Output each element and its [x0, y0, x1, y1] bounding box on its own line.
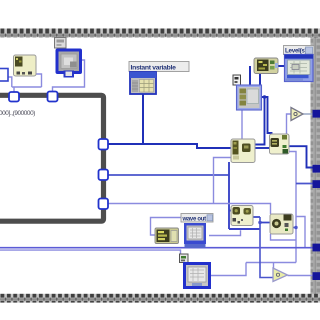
gray badge G1: [55, 38, 67, 49]
wire: O2 to label box: [151, 218, 182, 236]
dynamic data node C1: [254, 58, 278, 74]
variable node V1: [130, 72, 156, 94]
tunnel D on right border: [313, 272, 320, 280]
tunnel T4: [99, 170, 109, 181]
wire: variable node drop: [142, 94, 144, 143]
wire: VI1 bottom to lower chain: [229, 162, 260, 229]
wire: triangle2 output to tunnel D: [288, 275, 313, 277]
subVI VI2: [270, 134, 290, 154]
wire: VI2 output to tunnel A2: [289, 146, 313, 167]
tunnel A2 on right border: [313, 165, 320, 173]
wire: constant to corner: [8, 77, 12, 87]
tunnel T5: [99, 199, 109, 210]
while-loop right border band: [311, 30, 320, 298]
wire: horizontal into tunnel T1: [12, 87, 42, 92]
svg-text:wave out: wave out: [182, 216, 207, 222]
while-loop top border: [0, 29, 320, 38]
badge above B2: [180, 254, 189, 263]
variable label: [129, 62, 189, 72]
tunnel B on right border: [313, 180, 320, 188]
subVI VI1: [231, 139, 255, 163]
svg-text:Instant variable: Instant variable: [131, 65, 177, 72]
wire: VI3 output to junction: [253, 217, 270, 223]
wire: VI4 bottom loop: [271, 234, 297, 240]
subVI VI3: [231, 206, 253, 226]
array icon AI: [237, 85, 262, 110]
tunnel T2: [48, 92, 58, 102]
chart terminal B1b: [184, 223, 206, 248]
indicator label A: [284, 46, 315, 55]
wire: VI2 up to comparison triangle: [287, 114, 292, 136]
wire: camera VI n-path into tunnel T2: [53, 60, 85, 92]
wire: B1b output right: [209, 230, 241, 235]
tunnel C on right border: [313, 244, 320, 252]
DAQ node O2: [155, 228, 179, 244]
wire: tunnel T5 run: [107, 204, 271, 215]
comparison triangle TR2: [273, 268, 288, 282]
wire: dynamic node left input drop: [249, 66, 251, 85]
while-loop bottom border: [0, 294, 320, 303]
tunnel A on right border: [313, 110, 320, 118]
badge above array icon: [233, 75, 241, 85]
wire: branch to tunnel B: [296, 183, 313, 185]
chart terminal B: [285, 55, 314, 82]
wire: junction down to triangle2: [260, 217, 273, 278]
wire: T5 branch up to VI1 input: [214, 158, 232, 204]
subVI VI4: [270, 214, 293, 234]
svg-text:Level(s): Level(s): [285, 48, 307, 55]
wire: yellow VI output down: [36, 74, 42, 87]
yellow subVI Y1: [14, 55, 37, 76]
wire: tunnel T4 run: [107, 174, 229, 176]
indicator label L2: [181, 214, 213, 223]
wire: branch down to tunnel C wire: [296, 217, 305, 249]
tunnel T1: [9, 92, 19, 102]
wire: array icon output with junction: [256, 97, 272, 145]
chart terminal B2: [183, 262, 211, 289]
wire: VI1 to VI2: [255, 147, 270, 149]
wire: dynamic node bottom drop: [259, 74, 261, 86]
wire: VI4 right output stub: [293, 227, 296, 229]
inner frame (sub-loop): [0, 95, 104, 221]
svg-text:000].,(900000): 000].,(900000): [0, 110, 35, 117]
wire: dynamic node to chart terminal: [278, 65, 287, 67]
wire: triangle1 output to tunnel A: [303, 113, 313, 115]
comparison triangle TR1: [291, 108, 303, 121]
wire: long run to B2 badge: [0, 250, 181, 254]
wire: main tunnel T3 run to VI1: [107, 144, 231, 148]
camera VI B1: [56, 49, 83, 78]
wire: VI2 lower output down right side: [246, 152, 296, 271]
wire: long run to tunnel C: [0, 247, 313, 249]
tunnel T3: [99, 139, 109, 150]
wire: array icon bottom drop to VI1: [241, 110, 243, 139]
wire: B2 output up to loop: [211, 263, 246, 276]
numeric constant K1: [0, 69, 8, 82]
